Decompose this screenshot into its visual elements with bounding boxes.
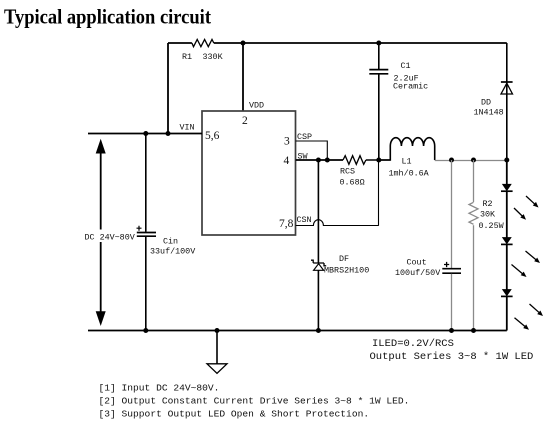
pin 3 [284, 136, 290, 148]
value 30K [480, 210, 496, 220]
label DD [481, 98, 491, 108]
label R1 [182, 52, 192, 62]
svg-text:0.25W: 0.25W [479, 221, 505, 231]
svg-text:2: 2 [242, 115, 248, 127]
svg-text:R2: R2 [483, 199, 493, 209]
svg-text:30K: 30K [480, 210, 496, 220]
svg-text:5,6: 5,6 [205, 130, 220, 142]
inductor L1 [379, 138, 435, 160]
wire top rail right segment [214, 42, 507, 44]
label R2 [483, 199, 493, 209]
svg-text:Ceramic: Ceramic [393, 82, 428, 92]
junction R1 lead on VIN [166, 131, 171, 136]
diode DD [501, 43, 513, 160]
value Ceramic [393, 82, 428, 92]
svg-text:Cout: Cout [407, 258, 427, 268]
title [4, 5, 212, 29]
junction SW-CSP [325, 158, 330, 163]
label CSN [297, 215, 312, 225]
label C1 [401, 61, 411, 71]
svg-text:[3] Support Output LED Open &: [3] Support Output LED Open & Short Prot… [99, 409, 370, 420]
wire LED bottom to rail [506, 296, 508, 330]
wire CSN with hop [296, 160, 379, 226]
label DC 24V~80V [84, 230, 135, 243]
svg-text:1N4148: 1N4148 [474, 108, 504, 118]
svg-text:L1: L1 [402, 157, 412, 167]
wire bottom rail [88, 330, 507, 332]
wire VDD stub [242, 43, 244, 111]
note 2 [99, 396, 410, 407]
svg-text:ILED=0.2V/RCS: ILED=0.2V/RCS [372, 338, 454, 350]
capacitor Cin [137, 134, 157, 331]
junction C1 top [376, 41, 381, 46]
label VDD [249, 101, 264, 111]
svg-text:100uf/50V: 100uf/50V [395, 268, 440, 278]
note output series [370, 351, 534, 363]
svg-text:DF: DF [339, 254, 349, 264]
junction Cout bottom [449, 328, 454, 333]
diode DF (schottky) [311, 160, 326, 331]
svg-text:C1: C1 [401, 61, 411, 71]
svg-text:7,8: 7,8 [279, 218, 294, 230]
svg-text:4: 4 [284, 155, 290, 167]
value 330K [203, 52, 224, 62]
svg-text:CSN: CSN [297, 215, 312, 225]
note 3 [99, 409, 370, 420]
label RCS [340, 167, 355, 177]
junction RCS right / C1 bottom [376, 158, 381, 163]
junction ground [215, 328, 220, 333]
svg-text:[1] Input DC 24V~80V.: [1] Input DC 24V~80V. [99, 383, 220, 394]
label Cin [163, 237, 178, 247]
label VIN [180, 123, 195, 133]
label SW [298, 152, 309, 162]
svg-text:DD: DD [481, 98, 491, 108]
svg-text:1mh/0.6A: 1mh/0.6A [389, 169, 430, 179]
LED D1 [501, 160, 513, 191]
pin 4 [284, 155, 290, 167]
resistor R1 [192, 39, 214, 46]
label L1 [402, 157, 412, 167]
value 0.68ohm [340, 178, 365, 188]
junction SW-DF [316, 158, 321, 163]
value 1N4148 [474, 108, 504, 118]
pin 5,6 [205, 130, 220, 142]
junction Cin bottom [143, 328, 148, 333]
svg-text:0.68Ω: 0.68Ω [340, 178, 365, 188]
value 0.25W [479, 221, 505, 231]
junction Cin top [143, 131, 148, 136]
junction LED node [504, 158, 509, 163]
junction DF bottom [316, 328, 321, 333]
wire CSP [296, 141, 328, 160]
value 2.2uF [394, 74, 419, 84]
svg-text:Output Series 3~8 * 1W LED: Output Series 3~8 * 1W LED [370, 351, 534, 363]
capacitor C1 [369, 43, 388, 160]
note 1 [99, 383, 220, 394]
value 1mh/0.6A [389, 169, 430, 179]
wire R1 left lead down to VIN [167, 43, 169, 134]
label Cout [407, 258, 427, 268]
node ILED equation [372, 338, 454, 350]
junction R2 bottom [471, 328, 476, 333]
svg-text:3: 3 [284, 136, 290, 148]
capacitor Cout [442, 160, 461, 331]
label DF [339, 254, 349, 264]
svg-text:DC 24V~80V: DC 24V~80V [85, 233, 135, 243]
ground [207, 331, 227, 374]
value 100uf/50V [395, 268, 440, 278]
value 33uf/100V [150, 247, 195, 257]
LED D1 emission arrows [514, 196, 539, 220]
op-amp U1 IC body [202, 111, 296, 235]
svg-text:R1: R1 [182, 52, 192, 62]
value MBRS2H100 [324, 266, 369, 276]
svg-text:33uf/100V: 33uf/100V [150, 247, 195, 257]
label CSP [297, 132, 312, 142]
wire top rail left segment [168, 42, 192, 44]
resistor R2 [469, 160, 478, 331]
junction Cout top [449, 158, 454, 163]
LED D3 [501, 244, 513, 296]
svg-text:RCS: RCS [340, 167, 355, 177]
svg-text:MBRS2H100: MBRS2H100 [324, 266, 369, 276]
resistor RCS [343, 156, 390, 165]
wire SW [296, 159, 343, 161]
svg-text:VIN: VIN [180, 123, 195, 133]
wire L1 to LED node [435, 160, 507, 162]
LED D2 [501, 191, 513, 244]
pin 2 [242, 115, 248, 127]
junction R2 top [471, 158, 476, 163]
svg-text:VDD: VDD [249, 101, 264, 111]
svg-text:330K: 330K [203, 52, 224, 62]
svg-text:Cin: Cin [163, 237, 178, 247]
LED D2 emission arrows [512, 251, 541, 277]
LED D3 emission arrows [515, 304, 544, 330]
wire VIN [88, 133, 202, 135]
DC input arrow [96, 139, 106, 326]
pin 7,8 [279, 218, 294, 230]
junction VDD top [241, 41, 246, 46]
svg-text:[2] Output Constant Current Dr: [2] Output Constant Current Drive Series… [99, 396, 410, 407]
svg-text:Typical application circuit: Typical application circuit [4, 5, 212, 29]
